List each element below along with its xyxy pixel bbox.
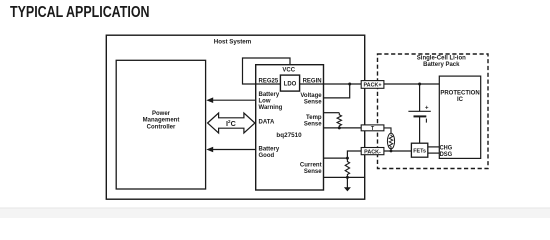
wire FETs to DSG: [428, 152, 440, 154]
node junction sense resistor top: [346, 157, 349, 160]
fuel gauge IC bq27510 U1: [256, 65, 324, 190]
svg-text:IC: IC: [457, 97, 464, 103]
svg-text:REG25: REG25: [259, 79, 279, 85]
svg-text:Battery: Battery: [259, 92, 280, 98]
svg-text:Current: Current: [300, 163, 322, 169]
power management controller box U2: [116, 60, 205, 189]
svg-text:Temp: Temp: [306, 115, 322, 121]
node junction sense resistor bottom: [346, 176, 349, 179]
svg-text:+: +: [425, 105, 429, 111]
wire battery good: [213, 149, 256, 151]
svg-text:Controller: Controller: [147, 124, 176, 130]
svg-text:Single-Cell Li-ion: Single-Cell Li-ion: [417, 56, 466, 62]
svg-text:FETs: FETs: [413, 148, 426, 154]
LDO block: [280, 75, 299, 91]
wire temp sense bias: [324, 112, 340, 114]
svg-text:REGIN: REGIN: [303, 79, 322, 85]
wire REGIN to PACK+: [324, 83, 362, 85]
wire temp sense to T terminal: [324, 127, 362, 129]
resistor RS current sense: [345, 158, 349, 177]
svg-text:Battery Pack: Battery Pack: [423, 62, 460, 68]
svg-text:Voltage: Voltage: [300, 93, 322, 99]
node junction voltage sense tap: [348, 83, 351, 86]
wire PACK+ to protection IC: [384, 83, 439, 85]
arrowhead battery good: [206, 147, 213, 153]
thermistor in pack: [387, 133, 394, 149]
connector PACK+: [361, 81, 384, 89]
arrowhead battery low warning: [206, 97, 213, 103]
svg-text:DATA: DATA: [259, 120, 275, 126]
ground symbol: [346, 177, 348, 187]
wire PACK- to sense resistor: [347, 151, 361, 158]
wire thermistor to PACK- line: [390, 148, 392, 151]
svg-text:I2C: I2C: [226, 119, 236, 128]
svg-text:PROTECTION: PROTECTION: [440, 91, 479, 97]
svg-text:VCC: VCC: [282, 67, 295, 73]
connector T: [361, 125, 384, 131]
wire current sense top: [324, 157, 348, 159]
wire T to thermistor: [384, 128, 391, 133]
wire current sense bottom: [324, 176, 366, 178]
svg-text:PACK+: PACK+: [363, 83, 381, 89]
svg-text:Low: Low: [259, 99, 271, 105]
wire PACK- to FETs: [384, 150, 412, 152]
wire LDO to REGIN: [300, 83, 324, 85]
resistor RT thermistor pull-up: [337, 113, 341, 128]
svg-text:Warning: Warning: [259, 105, 283, 111]
svg-text:Management: Management: [143, 118, 180, 124]
svg-text:Sense: Sense: [304, 169, 322, 175]
svg-text:Sense: Sense: [304, 121, 322, 127]
svg-text:bq27510: bq27510: [276, 132, 302, 139]
svg-text:LDO: LDO: [284, 81, 297, 87]
battery minus tick: [425, 119, 427, 123]
svg-text:Host System: Host System: [214, 38, 252, 45]
svg-text:DSG: DSG: [440, 152, 453, 158]
node junction resistor RT bottom: [338, 126, 341, 129]
connector PACK-: [361, 148, 384, 155]
svg-text:TYPICAL APPLICATION: TYPICAL APPLICATION: [10, 4, 150, 21]
node junction battery positive: [418, 83, 421, 86]
wire FETs to CHG: [428, 146, 440, 148]
wire VCC loop to REG25: [243, 58, 291, 84]
host system box: [106, 35, 364, 199]
wire REG25 to LDO: [256, 83, 281, 85]
wire voltage sense: [324, 84, 350, 98]
FETs block: [411, 143, 427, 157]
svg-text:PACK-: PACK-: [364, 149, 381, 155]
svg-text:Power: Power: [152, 111, 171, 117]
I2C bidirectional arrow: [208, 113, 255, 133]
battery cell BT1: [419, 84, 421, 111]
battery pack dashed boundary: [378, 54, 489, 169]
svg-text:Battery: Battery: [259, 147, 280, 153]
footer band: [0, 208, 550, 218]
node junction thermistor bottom: [390, 150, 393, 153]
svg-text:Sense: Sense: [304, 100, 322, 106]
svg-text:Good: Good: [259, 153, 275, 159]
wire battery low warning: [213, 99, 256, 101]
protection IC block: [439, 76, 480, 158]
svg-text:CHG: CHG: [440, 145, 453, 151]
